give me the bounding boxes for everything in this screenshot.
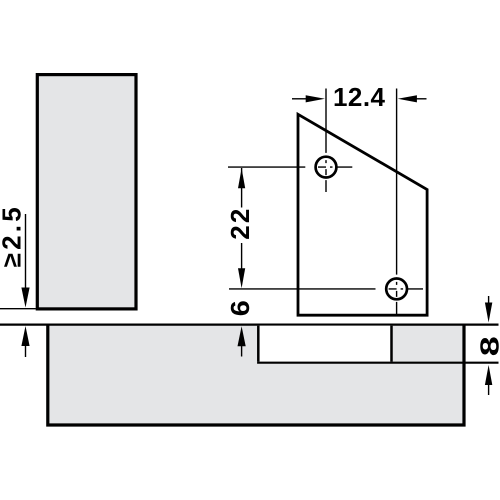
dimension 12.4 left arrowhead	[306, 95, 325, 102]
svg-text:22: 22	[225, 209, 255, 240]
dimension >=2.5 arrow tail lower	[25, 345, 27, 357]
extension line at door bottom edge	[0, 308, 36, 310]
notch left edge	[257, 326, 260, 362]
centerline vertical through lower hole (also 12.4 right extension)	[396, 89, 398, 316]
door panel (gray rectangle, side view)	[37, 75, 136, 309]
screw hole upper (circle)	[316, 157, 337, 178]
centerline horizontal through upper hole	[228, 166, 352, 168]
dimension >=2.5 up arrowhead	[21, 326, 29, 346]
dimension 22 down arrowhead	[238, 268, 245, 288]
dimension 8 down arrowhead	[485, 303, 492, 323]
dimension 22 vertical line upper part	[241, 168, 243, 208]
screw hole lower (circle)	[386, 279, 407, 300]
dimension 8 up arrow tail	[488, 384, 490, 395]
dimension 22 up arrowhead	[238, 168, 245, 188]
dimension >=2.5 down arrowhead	[21, 288, 29, 308]
centerline horizontal through lower hole	[229, 288, 423, 290]
svg-text:6: 6	[225, 300, 255, 316]
mounting plate outline (white quadrilateral)	[298, 114, 427, 315]
dimension label 6 (rotated)	[225, 300, 255, 316]
dimension 8 down arrow tail	[488, 296, 490, 306]
cabinet panel top surface line with extensions both sides	[0, 324, 499, 326]
notch bottom line extended right as extension line	[257, 362, 498, 364]
dimension 6 arrow tail	[241, 345, 243, 357]
dimension 12.4 line left tail	[292, 98, 307, 100]
centerline vertical through upper hole (also 12.4 left extension)	[325, 89, 327, 193]
dimension >=2.5 arrow tail upper	[25, 214, 27, 289]
dimension 8 up arrowhead	[485, 365, 492, 385]
dimension 12.4 right arrowhead	[398, 95, 417, 102]
svg-text:≥2.5: ≥2.5	[0, 207, 26, 267]
dimension label >=2.5 (rotated)	[0, 207, 26, 267]
dimension label 22 (rotated)	[225, 209, 255, 240]
dimension 12.4 right tail	[416, 98, 426, 100]
dimension 6 up arrowhead	[238, 326, 246, 346]
cabinet panel (gray rectangle, bottom)	[48, 326, 464, 426]
svg-text:8: 8	[474, 336, 500, 356]
svg-text:12.4: 12.4	[333, 82, 386, 112]
dimension label 8 (rotated)	[474, 336, 500, 356]
dimension 22 vertical line lower part	[241, 243, 243, 270]
notch right edge	[390, 326, 393, 362]
mortise notch (white cut-out in panel)	[260, 326, 391, 362]
